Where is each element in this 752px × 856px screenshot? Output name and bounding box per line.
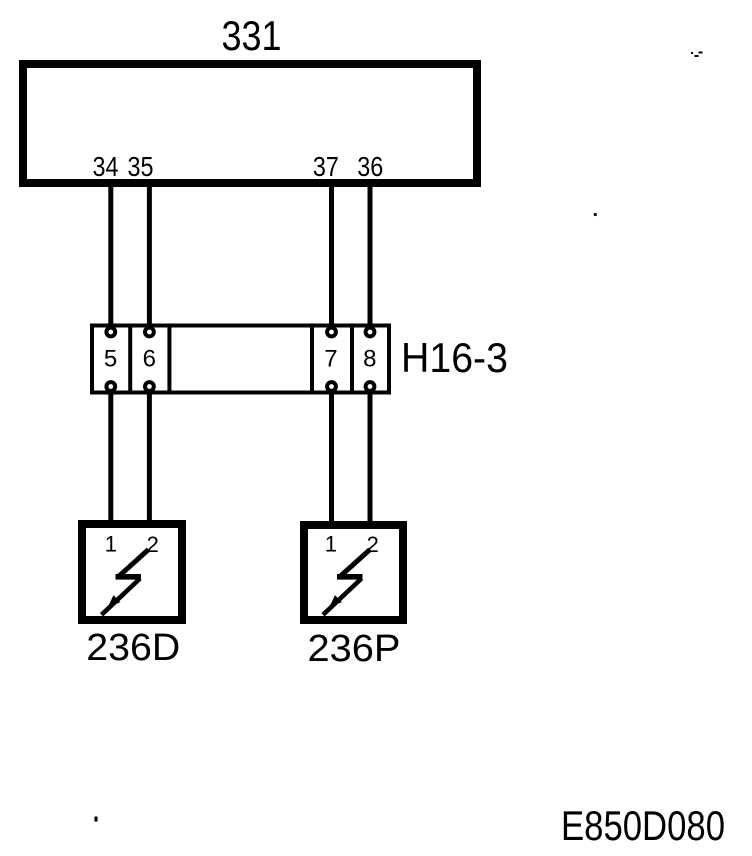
H16-3 pin 5 label xyxy=(104,346,117,373)
spark plug box 236P xyxy=(304,525,403,620)
H16-3 pin 8 top hole xyxy=(366,328,375,337)
ECU box 331 xyxy=(23,64,477,183)
wire H16-3 pin 6 to 236D pin 2 xyxy=(147,391,152,526)
svg-text:36: 36 xyxy=(357,151,383,182)
H16-3 pin 6 bottom hole xyxy=(145,382,154,391)
H16-3 pin 7 bottom hole xyxy=(327,382,336,391)
svg-text:8: 8 xyxy=(363,346,376,373)
connector H16-3 body xyxy=(92,326,389,393)
wire pin 37 to H16-3 pin 7 xyxy=(329,184,334,327)
wire H16-3 pin 7 to 236P pin 1 xyxy=(329,391,334,527)
svg-text:7: 7 xyxy=(324,346,337,373)
H16-3 pin 6 top hole xyxy=(145,328,154,337)
label 236P xyxy=(308,628,401,670)
wire H16-3 pin 8 to 236P pin 2 xyxy=(368,391,373,527)
label 236D xyxy=(86,627,180,669)
236P pin 2 label xyxy=(367,532,379,557)
svg-text:1: 1 xyxy=(325,532,337,557)
236P spark symbol xyxy=(323,550,370,615)
236P pin 1 label xyxy=(325,532,337,557)
H16-3 divider between pin 7 and pin 8 xyxy=(350,324,354,395)
pin 36 label xyxy=(357,151,383,182)
H16-3 divider between pin 5 and pin 6 xyxy=(128,324,132,395)
H16-3 pin 8 label xyxy=(363,346,376,373)
svg-text:35: 35 xyxy=(128,151,154,182)
label H16-3 xyxy=(401,334,508,381)
H16-3 pin 5 top hole xyxy=(106,328,115,337)
svg-text:1: 1 xyxy=(105,532,117,557)
spark plug box 236D xyxy=(82,524,182,620)
wire H16-3 pin 5 to 236D pin 1 xyxy=(108,391,113,526)
pin 34 label xyxy=(93,151,119,182)
236D pin 2 label xyxy=(147,532,159,557)
svg-text:236P: 236P xyxy=(308,628,401,670)
svg-text:H16-3: H16-3 xyxy=(401,334,508,381)
H16-3 pin 6 label xyxy=(143,346,156,373)
236D pin 1 label xyxy=(105,532,117,557)
wire pin 34 to H16-3 pin 5 xyxy=(108,184,113,327)
svg-text:34: 34 xyxy=(93,151,119,182)
H16-3 divider right of pin 6 xyxy=(167,324,171,395)
svg-text:2: 2 xyxy=(147,532,159,557)
svg-text:37: 37 xyxy=(313,151,339,182)
svg-text:236D: 236D xyxy=(86,627,180,669)
H16-3 pin 5 bottom hole xyxy=(106,382,115,391)
wire pin 36 to H16-3 pin 8 xyxy=(368,184,373,327)
236D spark symbol xyxy=(102,550,149,615)
svg-text:6: 6 xyxy=(143,346,156,373)
svg-text:E850D080: E850D080 xyxy=(561,802,725,849)
H16-3 pin 7 label xyxy=(324,346,337,373)
pin 35 label xyxy=(128,151,154,182)
svg-text:331: 331 xyxy=(222,12,282,59)
H16-3 pin 7 top hole xyxy=(327,328,336,337)
diagram ID E850D080 xyxy=(561,802,725,849)
svg-text:5: 5 xyxy=(104,346,117,373)
label 331 xyxy=(222,12,282,59)
H16-3 divider left of pin 7 xyxy=(310,324,314,395)
wire pin 35 to H16-3 pin 6 xyxy=(147,184,152,327)
H16-3 pin 8 bottom hole xyxy=(366,382,375,391)
pin 37 label xyxy=(313,151,339,182)
